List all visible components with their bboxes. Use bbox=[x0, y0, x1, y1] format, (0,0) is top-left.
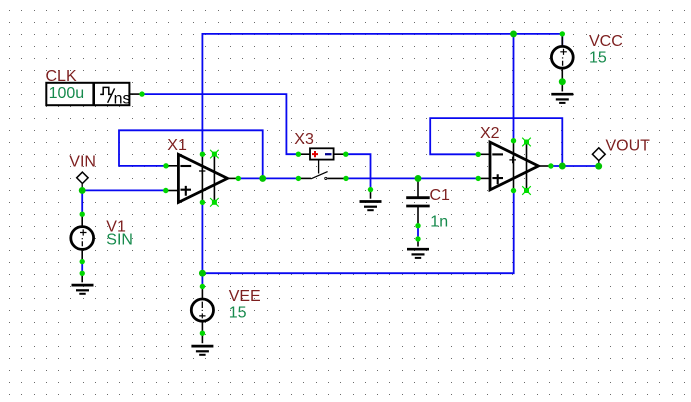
wire: top rail drop to X2 V+ pin bbox=[513, 34, 515, 141]
ground below V1 bbox=[72, 285, 94, 294]
wire: X2 feedback loop (output to inverting input) bbox=[430, 118, 562, 166]
svg-text:1n: 1n bbox=[430, 214, 448, 231]
wire: CLK output to X3 control input bbox=[142, 94, 298, 154]
pin dot CLK output bbox=[139, 91, 144, 96]
pin dot V1 bottom bbox=[80, 259, 85, 264]
no-connect marker X1 bottom bbox=[210, 198, 219, 207]
pin dot X2 non-inverting input bbox=[476, 176, 481, 181]
wire: VIN node down to V1 bbox=[81, 190, 83, 213]
ground below VEE bbox=[191, 346, 213, 355]
junction node top rail / X2 supply bbox=[510, 30, 517, 37]
wire: X1 V- pin down to bottom rail bbox=[201, 202, 203, 273]
pin dot VCC bottom bbox=[559, 78, 566, 85]
pin dot VEE bottom bbox=[200, 331, 205, 336]
pin dot X1 output bbox=[236, 176, 241, 181]
pin dot C1 bottom bbox=[415, 223, 420, 228]
junction node C1 top bbox=[415, 175, 422, 182]
wire: X2 output to VOUT bbox=[551, 165, 599, 167]
switch X3 control box bbox=[298, 148, 345, 173]
pin dot V1 ground bbox=[80, 271, 85, 276]
wire: X3 control return to ground bbox=[346, 154, 371, 189]
wire: X1 feedback loop (output to inverting input) bbox=[119, 130, 263, 178]
pin dot X2 V- bbox=[511, 188, 516, 193]
ground below VCC bbox=[551, 94, 573, 103]
terminal VIN diamond bbox=[77, 172, 88, 190]
pin dot C1 ground bbox=[415, 236, 420, 241]
no-connect marker X2 top bbox=[522, 138, 531, 147]
svg-text:CLK: CLK bbox=[46, 68, 77, 85]
op-amp X1 triangle bbox=[166, 154, 239, 203]
junction node X2 output/feedback bbox=[559, 163, 566, 170]
pin dot X2 V+ bbox=[511, 138, 516, 143]
terminal VOUT diamond bbox=[592, 148, 605, 166]
svg-text:VEE: VEE bbox=[229, 288, 261, 305]
wire: bottom rail VEE node to X2 V- pin bbox=[202, 191, 513, 274]
svg-text:VIN: VIN bbox=[69, 154, 96, 171]
junction node VIN bbox=[79, 187, 86, 194]
svg-text:VOUT: VOUT bbox=[606, 138, 651, 155]
wire: switch X3 to C1 to X2 non-inverting input bbox=[346, 177, 478, 179]
pin dot X1 V- bbox=[200, 200, 205, 205]
svg-text:15: 15 bbox=[589, 49, 607, 66]
no-connect marker X2 bottom bbox=[522, 186, 531, 195]
no-connect marker X1 top bbox=[210, 150, 219, 159]
wire: VIN to X1 non-inverting input bbox=[82, 189, 166, 191]
voltage source VEE bbox=[191, 287, 213, 344]
pin dot X3 control - bbox=[343, 152, 348, 157]
svg-text:VCC: VCC bbox=[589, 33, 623, 50]
wire: X1 output to switch X3 bbox=[238, 177, 298, 179]
pin dot X3 ground bbox=[368, 187, 373, 192]
pin dot X2 output bbox=[548, 163, 553, 168]
ground below C1 bbox=[407, 249, 429, 258]
svg-text:X3: X3 bbox=[294, 131, 314, 148]
junction node X1 output/feedback bbox=[259, 175, 266, 182]
voltage source V1 bbox=[71, 214, 94, 282]
pin dot V1 top bbox=[80, 212, 85, 217]
wire: C1 between pin dots bbox=[417, 226, 419, 239]
capacitor C1 bbox=[406, 178, 430, 246]
svg-text:SIN: SIN bbox=[106, 231, 133, 248]
ground below X3 bbox=[360, 190, 382, 211]
wire: V1 between pin dots bbox=[81, 262, 83, 274]
svg-text:X1: X1 bbox=[167, 137, 187, 154]
switch X3 contacts bbox=[298, 172, 346, 180]
pin dot X1 non-inverting input bbox=[163, 188, 168, 193]
wire: VEE node down to VEE source bbox=[201, 273, 203, 286]
pin dot VCC top bbox=[560, 31, 565, 36]
svg-text:X2: X2 bbox=[480, 125, 500, 142]
pin dot VEE top bbox=[200, 284, 205, 289]
svg-text:15: 15 bbox=[229, 304, 247, 321]
svg-text:ns: ns bbox=[114, 90, 131, 107]
pin dot X1 inverting input bbox=[163, 163, 168, 168]
pulse glyph and /ns in CLK box bbox=[100, 87, 130, 107]
pin dot X2 inverting input bbox=[476, 152, 481, 157]
op-amp X2 triangle bbox=[478, 141, 551, 191]
junction node bottom rail / VEE bbox=[199, 270, 206, 277]
pin dot X1 V+ bbox=[200, 152, 205, 157]
junction node VOUT bbox=[595, 163, 602, 170]
svg-text:100u: 100u bbox=[49, 85, 85, 102]
wire: X1 V+ pin up to top rail across to VCC bbox=[202, 34, 562, 154]
pin dot X3 control + bbox=[296, 152, 301, 157]
pin dot X3 switch right bbox=[343, 176, 348, 181]
svg-text:C1: C1 bbox=[430, 187, 451, 204]
pin dot X3 switch left bbox=[296, 176, 301, 181]
clock source CLK box bbox=[46, 83, 142, 105]
voltage source VCC bbox=[551, 34, 573, 92]
